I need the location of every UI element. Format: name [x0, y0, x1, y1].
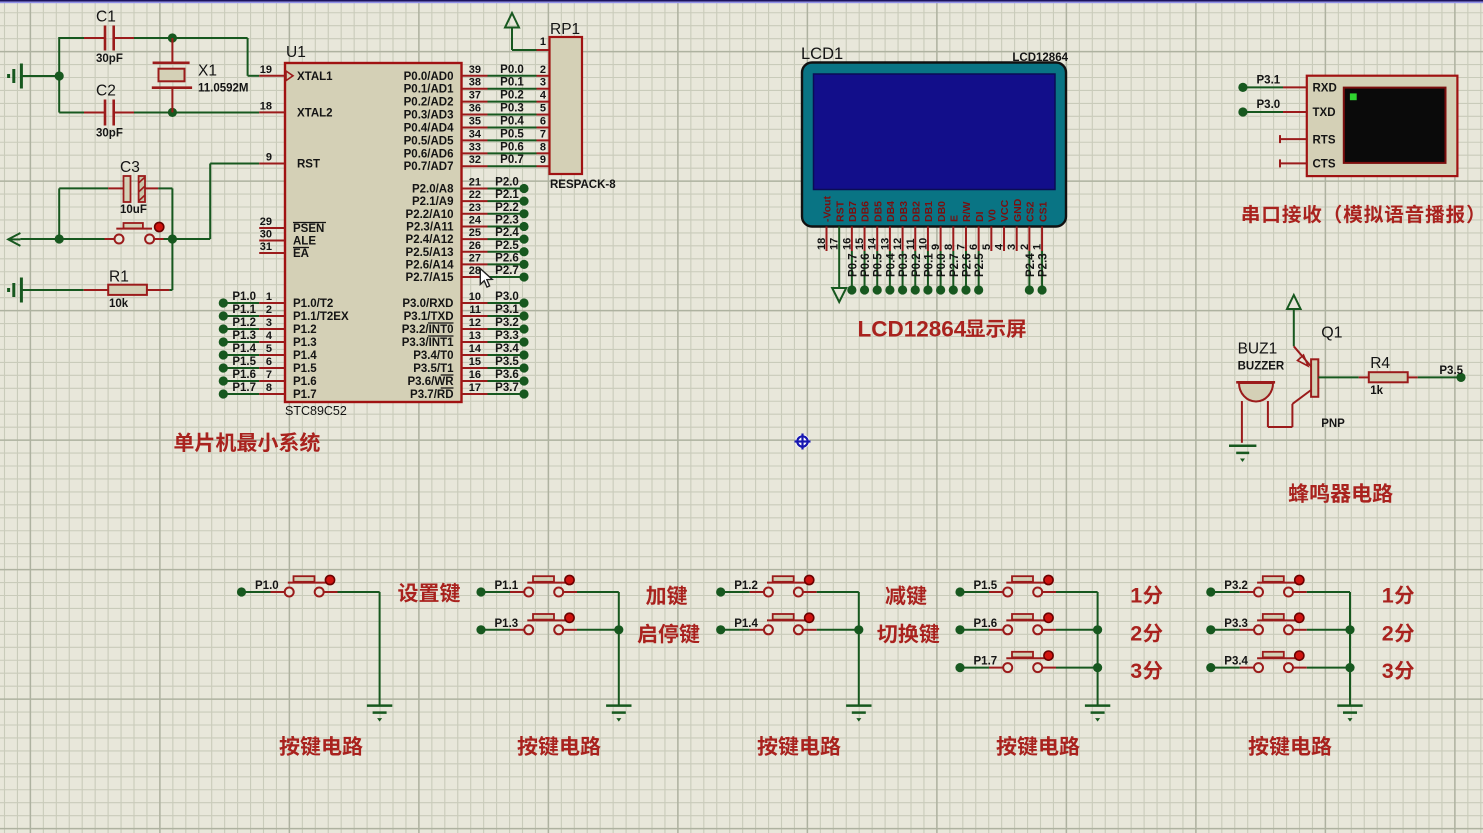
svg-text:P0.6: P0.6	[500, 141, 524, 153]
svg-text:P2.7: P2.7	[949, 253, 961, 277]
svg-text:30pF: 30pF	[96, 128, 123, 140]
svg-text:LCD12864: LCD12864	[1012, 52, 1068, 64]
svg-text:37: 37	[469, 90, 481, 102]
svg-text:13: 13	[469, 330, 481, 342]
svg-text:P2.0/A8: P2.0/A8	[412, 184, 454, 196]
svg-text:C2: C2	[96, 83, 116, 100]
svg-text:P1.4: P1.4	[734, 618, 758, 630]
svg-text:P1.1: P1.1	[232, 304, 256, 316]
svg-text:P1.5: P1.5	[974, 580, 998, 592]
svg-text:P3.2: P3.2	[495, 317, 519, 329]
svg-text:P3.0/RXD: P3.0/RXD	[402, 298, 453, 310]
svg-text:10: 10	[469, 291, 481, 303]
svg-text:P0.7: P0.7	[847, 253, 859, 277]
svg-text:P3.6/WR: P3.6/WR	[407, 376, 454, 388]
svg-text:GND: GND	[1012, 198, 1024, 222]
svg-text:3: 3	[540, 77, 546, 89]
svg-text:33: 33	[469, 141, 481, 153]
svg-text:P0.0/AD0: P0.0/AD0	[404, 71, 454, 83]
svg-text:P3.4: P3.4	[1224, 656, 1248, 668]
svg-text:P3.3/INT1: P3.3/INT1	[402, 337, 454, 349]
svg-text:P0.2: P0.2	[500, 90, 524, 102]
svg-text:P2.3: P2.3	[1038, 253, 1050, 277]
svg-text:P2.3: P2.3	[495, 214, 519, 226]
svg-text:P1.0/T2: P1.0/T2	[293, 298, 333, 310]
svg-text:2: 2	[1130, 622, 1142, 646]
svg-text:P1.5: P1.5	[293, 363, 317, 375]
svg-text:XTAL2: XTAL2	[297, 108, 333, 120]
svg-text:P2.6: P2.6	[961, 253, 973, 277]
svg-text:P1.6: P1.6	[293, 376, 317, 388]
svg-text:ALE: ALE	[293, 236, 316, 248]
svg-text:P3.2: P3.2	[1224, 580, 1248, 592]
svg-text:RXD: RXD	[1313, 83, 1337, 95]
svg-text:P1.2: P1.2	[734, 580, 758, 592]
svg-text:18: 18	[260, 100, 272, 112]
svg-text:LCD12864: LCD12864	[858, 317, 967, 342]
svg-text:P2.4/A12: P2.4/A12	[406, 234, 454, 246]
svg-text:6: 6	[266, 356, 272, 368]
svg-text:P3.7: P3.7	[495, 382, 519, 394]
svg-text:7: 7	[540, 128, 546, 140]
svg-text:24: 24	[469, 214, 482, 226]
svg-text:19: 19	[260, 64, 272, 76]
svg-text:P3.5: P3.5	[495, 356, 519, 368]
svg-text:DB0: DB0	[936, 201, 948, 222]
svg-text:R1: R1	[109, 269, 129, 286]
svg-text:P2.1/A9: P2.1/A9	[412, 196, 454, 208]
svg-text:35: 35	[469, 115, 481, 127]
svg-text:P0.6/AD6: P0.6/AD6	[404, 148, 454, 160]
svg-text:P0.2/AD2: P0.2/AD2	[404, 97, 454, 109]
svg-text:P0.5: P0.5	[873, 253, 885, 277]
svg-text:P2.6/A14: P2.6/A14	[406, 259, 455, 271]
svg-text:P2.3/A11: P2.3/A11	[406, 221, 454, 233]
svg-text:P2.5: P2.5	[495, 240, 519, 252]
svg-text:30pF: 30pF	[96, 53, 123, 65]
svg-text:1k: 1k	[1370, 385, 1383, 397]
svg-text:P1.4: P1.4	[293, 350, 317, 362]
svg-text:2: 2	[266, 304, 272, 316]
svg-text:8: 8	[540, 141, 546, 153]
svg-text:P3.5: P3.5	[1439, 365, 1463, 377]
svg-text:P0.2: P0.2	[911, 253, 923, 277]
svg-text:RESPACK-8: RESPACK-8	[550, 179, 616, 191]
svg-text:R4: R4	[1370, 355, 1390, 372]
svg-text:P1.1: P1.1	[495, 580, 519, 592]
svg-text:XTAL1: XTAL1	[297, 71, 333, 83]
svg-text:7: 7	[266, 369, 272, 381]
svg-text:CS1: CS1	[1037, 201, 1049, 222]
svg-text:P2.2: P2.2	[495, 202, 519, 214]
svg-text:DB7: DB7	[847, 201, 859, 222]
svg-text:P0.1: P0.1	[923, 253, 935, 277]
svg-text:36: 36	[469, 103, 481, 115]
svg-text:P1.1/T2EX: P1.1/T2EX	[293, 311, 349, 323]
svg-text:P1.7: P1.7	[974, 656, 998, 668]
svg-text:P1.6: P1.6	[974, 618, 998, 630]
svg-text:16: 16	[469, 369, 481, 381]
svg-text:RST: RST	[834, 200, 846, 222]
svg-text:4: 4	[266, 330, 273, 342]
svg-text:6: 6	[540, 115, 546, 127]
svg-text:DB5: DB5	[872, 201, 884, 222]
svg-text:P3.5/T1: P3.5/T1	[413, 363, 454, 375]
svg-text:P0.0: P0.0	[936, 253, 948, 277]
svg-text:29: 29	[260, 216, 272, 228]
svg-text:RP1: RP1	[550, 21, 580, 38]
svg-text:15: 15	[469, 356, 481, 368]
svg-text:25: 25	[469, 227, 481, 239]
svg-text:P3.1: P3.1	[1257, 74, 1281, 86]
svg-text:P1.5: P1.5	[232, 356, 256, 368]
svg-text:P2.2/A10: P2.2/A10	[406, 209, 454, 221]
svg-text:P3.3: P3.3	[1224, 618, 1248, 630]
svg-text:11.0592M: 11.0592M	[198, 83, 249, 95]
svg-text:P3.4: P3.4	[495, 343, 519, 355]
svg-text:DI: DI	[974, 211, 986, 222]
svg-text:P0.6: P0.6	[860, 253, 872, 277]
svg-text:P0.7/AD7: P0.7/AD7	[404, 161, 454, 173]
svg-text:CTS: CTS	[1313, 159, 1336, 171]
svg-text:-Vout: -Vout	[822, 195, 834, 222]
svg-text:P2.7/A15: P2.7/A15	[406, 272, 455, 284]
svg-text:P1.0: P1.0	[232, 291, 256, 303]
svg-text:4: 4	[540, 90, 547, 102]
svg-text:27: 27	[469, 252, 481, 264]
svg-text:28: 28	[469, 265, 481, 277]
svg-text:P2.5/A13: P2.5/A13	[406, 247, 454, 259]
svg-text:1: 1	[540, 36, 546, 48]
svg-text:E: E	[949, 215, 961, 222]
svg-text:34: 34	[469, 128, 482, 140]
svg-text:31: 31	[260, 241, 272, 253]
svg-text:8: 8	[266, 382, 272, 394]
svg-text:DB1: DB1	[923, 201, 935, 222]
svg-text:P1.2: P1.2	[232, 317, 256, 329]
svg-text:1: 1	[1130, 584, 1142, 608]
svg-text:P3.3: P3.3	[495, 330, 519, 342]
svg-text:P1.6: P1.6	[232, 369, 256, 381]
svg-text:1: 1	[1382, 584, 1394, 608]
svg-text:P3.1/TXD: P3.1/TXD	[404, 311, 454, 323]
svg-text:30: 30	[260, 229, 272, 241]
svg-text:DB3: DB3	[898, 201, 910, 222]
svg-text:9: 9	[540, 154, 546, 166]
svg-text:P0.0: P0.0	[500, 64, 524, 76]
svg-text:P1.4: P1.4	[232, 343, 256, 355]
svg-text:V0: V0	[987, 209, 999, 222]
svg-text:2: 2	[1382, 622, 1394, 646]
svg-text:26: 26	[469, 240, 481, 252]
svg-text:P0.4: P0.4	[500, 115, 524, 127]
svg-text:P0.3: P0.3	[500, 103, 524, 115]
svg-text:39: 39	[469, 64, 481, 76]
svg-text:5: 5	[540, 103, 546, 115]
svg-text:P0.4: P0.4	[885, 253, 897, 277]
svg-text:P0.5/AD5: P0.5/AD5	[404, 135, 454, 147]
svg-text:P0.5: P0.5	[500, 128, 524, 140]
svg-text:P2.1: P2.1	[495, 189, 519, 201]
svg-text:P2.4: P2.4	[1025, 253, 1037, 277]
svg-text:BUZ1: BUZ1	[1238, 341, 1278, 358]
svg-text:TXD: TXD	[1313, 107, 1336, 119]
svg-text:CS2: CS2	[1025, 201, 1037, 222]
svg-text:P0.1/AD1: P0.1/AD1	[404, 84, 454, 96]
svg-text:Q1: Q1	[1321, 325, 1342, 342]
svg-text:P1.7: P1.7	[232, 382, 256, 394]
svg-text:RST: RST	[297, 159, 320, 171]
svg-text:2: 2	[540, 64, 546, 76]
svg-text:P3.1: P3.1	[495, 304, 519, 316]
svg-text:RTS: RTS	[1313, 134, 1336, 146]
svg-text:23: 23	[469, 202, 481, 214]
svg-text:9: 9	[266, 152, 272, 164]
svg-text:EA: EA	[293, 248, 309, 260]
svg-text:STC89C52: STC89C52	[285, 404, 347, 418]
svg-text:X1: X1	[198, 63, 217, 80]
svg-text:22: 22	[469, 189, 481, 201]
svg-text:32: 32	[469, 154, 481, 166]
svg-text:P2.6: P2.6	[495, 252, 519, 264]
svg-text:DB4: DB4	[885, 201, 897, 222]
svg-text:PSEN: PSEN	[293, 223, 324, 235]
svg-text:14: 14	[469, 343, 482, 355]
svg-text:P0.1: P0.1	[500, 77, 524, 89]
svg-text:3: 3	[1130, 659, 1142, 683]
svg-text:P3.0: P3.0	[1257, 99, 1281, 111]
svg-text:P3.6: P3.6	[495, 369, 519, 381]
svg-text:P2.7: P2.7	[495, 265, 519, 277]
svg-text:P0.4/AD4: P0.4/AD4	[404, 122, 454, 134]
svg-text:P0.3: P0.3	[898, 253, 910, 277]
svg-text:P3.7/RD: P3.7/RD	[410, 389, 453, 401]
svg-text:3: 3	[1382, 659, 1394, 683]
svg-text:DB6: DB6	[860, 201, 872, 222]
svg-text:P2.5: P2.5	[974, 253, 986, 277]
svg-text:10uF: 10uF	[120, 204, 147, 216]
svg-text:DB2: DB2	[910, 201, 922, 222]
svg-text:21: 21	[469, 177, 481, 189]
svg-text:5: 5	[266, 343, 272, 355]
svg-text:17: 17	[469, 382, 481, 394]
svg-text:P1.7: P1.7	[293, 389, 317, 401]
svg-text:10k: 10k	[109, 298, 129, 310]
svg-text:P0.7: P0.7	[500, 154, 524, 166]
svg-text:P0.3/AD3: P0.3/AD3	[404, 110, 454, 122]
svg-text:P3.4/T0: P3.4/T0	[413, 350, 453, 362]
svg-text:PNP: PNP	[1321, 418, 1345, 430]
svg-text:P2.0: P2.0	[495, 177, 519, 189]
svg-text:P3.0: P3.0	[495, 291, 519, 303]
svg-text:LCD1: LCD1	[801, 45, 843, 63]
svg-text:1: 1	[266, 291, 272, 303]
svg-text:BUZZER: BUZZER	[1238, 360, 1285, 372]
svg-text:P1.3: P1.3	[232, 330, 256, 342]
svg-text:12: 12	[469, 317, 481, 329]
svg-text:VCC: VCC	[999, 199, 1011, 222]
svg-text:P1.3: P1.3	[495, 618, 519, 630]
svg-text:11: 11	[469, 304, 481, 316]
svg-text:R/W: R/W	[961, 202, 973, 223]
svg-text:P1.2: P1.2	[293, 324, 317, 336]
svg-text:P1.0: P1.0	[255, 580, 279, 592]
svg-text:C1: C1	[96, 9, 116, 26]
svg-text:P2.4: P2.4	[495, 227, 519, 239]
svg-text:U1: U1	[286, 44, 306, 61]
svg-text:38: 38	[469, 77, 481, 89]
svg-text:P3.2/INT0: P3.2/INT0	[402, 324, 454, 336]
svg-text:P1.3: P1.3	[293, 337, 317, 349]
svg-text:C3: C3	[120, 159, 140, 176]
svg-text:3: 3	[266, 317, 272, 329]
